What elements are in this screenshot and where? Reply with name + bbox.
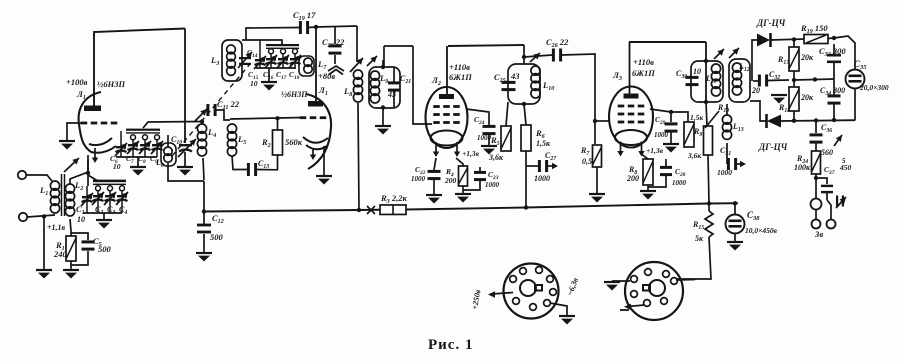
ground under C23 xyxy=(426,195,442,204)
terminal out1 xyxy=(812,220,821,229)
S1 pin 5 xyxy=(550,289,557,296)
S1 pin 2 xyxy=(520,268,527,275)
resistor R10 xyxy=(704,126,713,155)
capacitor C28 branch xyxy=(463,165,486,190)
label 10 xyxy=(113,162,121,171)
coil L10 xyxy=(531,66,540,98)
ground bank2 xyxy=(130,167,146,176)
svg-text:C3: C3 xyxy=(107,205,115,216)
junction tank bottom xyxy=(522,102,526,106)
svg-text:1000: 1000 xyxy=(411,175,426,183)
label C29 xyxy=(655,115,666,126)
label R4 xyxy=(445,167,454,178)
ground under R1 xyxy=(63,270,79,279)
svg-text:+110в: +110в xyxy=(449,62,470,72)
phone jack xyxy=(811,199,822,210)
junction bus R15 xyxy=(707,201,711,205)
label R15 xyxy=(692,220,704,231)
label C1 xyxy=(76,204,85,216)
coil L12 xyxy=(732,63,741,95)
svg-text:+80в: +80в xyxy=(318,71,335,81)
terminal out2 xyxy=(827,220,836,229)
wire R15 to socket xyxy=(676,237,711,279)
label R3 2,2к xyxy=(380,193,407,205)
bank3 ground stub xyxy=(268,68,270,81)
label 560 xyxy=(821,148,833,157)
label L7 xyxy=(317,59,327,71)
svg-text:3,6к: 3,6к xyxy=(488,153,504,162)
capacitor C37 branch xyxy=(816,178,833,200)
label Л2 xyxy=(431,75,441,87)
U1a grid dashes xyxy=(81,122,118,125)
svg-text:C25: C25 xyxy=(494,72,506,84)
wire IF bottom to R10 xyxy=(706,102,707,126)
ground under input xyxy=(36,270,52,279)
label 6Ж1П-2 xyxy=(632,68,655,78)
svg-text:43: 43 xyxy=(387,90,396,99)
svg-text:10: 10 xyxy=(693,67,701,76)
label R18 xyxy=(778,103,790,114)
svg-text:20,0×300: 20,0×300 xyxy=(859,83,889,92)
svg-text:100к: 100к xyxy=(794,163,811,172)
U1a cathode arc xyxy=(89,138,116,153)
coil L4 xyxy=(197,124,206,156)
svg-text:5: 5 xyxy=(842,157,846,165)
label L6 xyxy=(155,158,164,169)
svg-text:20: 20 xyxy=(751,86,760,95)
svg-text:R7: R7 xyxy=(580,146,590,157)
U1b plate xyxy=(308,101,323,107)
svg-text:R3 2,2к: R3 2,2к xyxy=(380,193,407,205)
wire L9 box ground xyxy=(382,108,384,125)
S2 pin 2 xyxy=(645,269,652,276)
ground under C24 xyxy=(481,146,497,155)
label 240 xyxy=(53,249,68,259)
label C8 xyxy=(138,154,146,165)
junction B+ node xyxy=(522,55,526,59)
coil L9 xyxy=(370,71,379,103)
svg-text:R15: R15 xyxy=(692,220,704,231)
transformer core L1-L2 xyxy=(62,174,65,216)
label C3 xyxy=(107,205,115,216)
resistor R3 xyxy=(380,205,406,215)
S2 pin 3 xyxy=(663,271,670,278)
label C33 300 xyxy=(819,46,846,58)
junction R17 bottom xyxy=(792,78,796,82)
label 0,5 xyxy=(582,157,592,166)
label 500 xyxy=(98,244,112,254)
svg-text:C2: C2 xyxy=(95,205,103,216)
label L8 xyxy=(343,86,352,98)
label 10 xyxy=(77,215,85,224)
wire to C26 xyxy=(524,55,552,57)
label ~6,3в xyxy=(565,276,580,297)
svg-text:L7: L7 xyxy=(317,59,327,71)
S2 wire right pin xyxy=(676,279,711,280)
label 43 xyxy=(510,71,520,81)
label half 6Н3П xyxy=(97,79,125,89)
junction C34 bus xyxy=(832,118,836,122)
capacitor C32 det xyxy=(750,75,789,87)
label C12 xyxy=(212,213,224,225)
label C19 17 xyxy=(293,10,316,22)
S2 arrow lower xyxy=(620,304,644,310)
label 5 xyxy=(842,157,846,165)
wire L3 top to bank3 xyxy=(242,40,282,44)
svg-text:C31: C31 xyxy=(720,146,731,157)
svg-text:R2: R2 xyxy=(261,137,271,149)
coil L3 xyxy=(227,45,236,75)
svg-text:L6: L6 xyxy=(155,158,164,169)
junction C29 xyxy=(669,110,673,114)
label C37 xyxy=(824,165,835,176)
wire osc top corner xyxy=(356,26,358,62)
resistor R15 zigzag xyxy=(705,204,713,238)
svg-text:L5: L5 xyxy=(237,134,246,146)
wire L4 bottom xyxy=(202,158,204,181)
label 1,5к xyxy=(536,139,551,148)
C14 arrow xyxy=(238,52,252,68)
wire T2 node down xyxy=(43,217,45,270)
capacitor C31 xyxy=(727,158,746,170)
bank1 bottom bus xyxy=(83,212,122,214)
svg-text:500: 500 xyxy=(210,232,224,242)
svg-text:~6,3в: ~6,3в xyxy=(565,276,580,297)
label C18 xyxy=(289,70,300,81)
label L5 xyxy=(237,134,246,146)
label C31 xyxy=(720,146,731,157)
svg-text:C19 17: C19 17 xyxy=(293,10,316,22)
wire grid feed La2 xyxy=(413,46,432,124)
grid bus half2 xyxy=(230,118,302,120)
variable arrow mixer xyxy=(530,53,540,62)
box above C21 xyxy=(384,46,413,67)
wire L8 bottom long vertical xyxy=(358,103,359,210)
wire plate node right xyxy=(316,26,357,27)
wire R4 bottom xyxy=(462,186,464,193)
ground det stub xyxy=(778,81,780,95)
junction D1 out xyxy=(792,37,796,41)
label C15 xyxy=(248,70,259,81)
label C20 22 xyxy=(322,37,345,49)
wire D1 to R19 xyxy=(771,39,804,40)
svg-text:C18: C18 xyxy=(289,70,300,81)
label 1000-C24 xyxy=(477,134,492,142)
label C16 xyxy=(263,70,274,81)
wire R2 bottom xyxy=(277,155,279,170)
ground under R4 xyxy=(455,194,471,203)
terminal input T2 xyxy=(19,213,27,221)
U1a cathode arrow xyxy=(92,148,98,163)
svg-text:C29: C29 xyxy=(655,115,666,126)
svg-text:200: 200 xyxy=(444,176,457,185)
ground under L9 box xyxy=(375,126,391,135)
label C36 xyxy=(821,123,832,134)
resistor R7 xyxy=(593,145,602,167)
svg-text:240: 240 xyxy=(53,249,68,259)
svg-text:ДГ-ЦЧ: ДГ-ЦЧ xyxy=(756,18,786,28)
trimmer capacitor C15 xyxy=(254,49,266,69)
junction IF bottom xyxy=(704,100,708,104)
coil L6 xyxy=(161,143,176,166)
S2 pin 4 xyxy=(671,278,678,285)
label +1,3в xyxy=(462,149,480,158)
wire T1 to L1 xyxy=(26,175,52,181)
label 450 xyxy=(839,163,852,172)
label R1 xyxy=(55,240,65,252)
coil L9 box xyxy=(369,67,400,108)
svg-text:6Ж1П: 6Ж1П xyxy=(632,68,655,78)
wire C26 to R7 corner xyxy=(562,54,595,144)
S2 pin 7 xyxy=(661,298,668,305)
capacitor C27 branch xyxy=(526,160,558,172)
coil L7 box xyxy=(299,56,314,76)
capacitor C28b branch xyxy=(648,157,672,187)
bank2 top bar xyxy=(126,129,160,134)
coil L12 box xyxy=(729,59,750,102)
label 5к xyxy=(695,234,704,243)
svg-text:C30: C30 xyxy=(676,69,687,80)
coil L11 xyxy=(711,64,720,96)
wire R10 bottom to bus xyxy=(708,155,709,204)
svg-text:560к: 560к xyxy=(285,137,303,147)
wire L13 bottom xyxy=(726,143,728,164)
label C2 xyxy=(95,205,103,216)
wire L2 bottom to R1 node xyxy=(70,219,71,231)
svg-text:1000: 1000 xyxy=(485,181,500,189)
svg-text:L2: L2 xyxy=(74,180,83,192)
label R10 xyxy=(717,103,729,114)
svg-text:½6Н3П: ½6Н3П xyxy=(97,79,125,89)
label L4 xyxy=(207,127,216,139)
svg-text:C26 22: C26 22 xyxy=(546,37,569,49)
label R7 xyxy=(580,146,590,157)
variable arrow L9 xyxy=(367,56,377,66)
wire B+ down xyxy=(523,45,525,57)
tank box C30 L11 xyxy=(691,61,723,102)
wire R24 to jack xyxy=(815,174,817,198)
resistor R6 xyxy=(521,104,531,151)
tank box C25 L10 xyxy=(508,64,540,104)
junction tank U3 xyxy=(704,59,708,63)
svg-text:L3: L3 xyxy=(210,55,219,67)
U1a plate xyxy=(84,106,101,112)
trimmer capacitor C6 xyxy=(115,136,127,157)
label R19 150 xyxy=(800,23,828,35)
capacitor C30 xyxy=(686,76,699,86)
S1 ground wire xyxy=(550,303,567,315)
svg-text:C23: C23 xyxy=(488,170,499,181)
wire C19 riser xyxy=(246,28,300,41)
coil L7 xyxy=(304,58,312,73)
resistor R1 xyxy=(66,236,76,261)
svg-text:20к: 20к xyxy=(800,93,814,102)
wire L12 top corner xyxy=(752,40,757,81)
junction cathode node xyxy=(86,171,90,175)
svg-text:1,5к: 1,5к xyxy=(536,139,551,148)
resistor R17 xyxy=(789,40,799,81)
variable capacitor C10 xyxy=(179,29,192,167)
coil L1 xyxy=(50,181,59,213)
coil L8 xyxy=(353,70,362,102)
triode U1b envelope xyxy=(306,94,331,169)
wire det mid xyxy=(794,79,834,80)
svg-text:L13: L13 xyxy=(732,122,744,133)
label +1,3в-2 xyxy=(646,146,664,155)
ground under R8 xyxy=(640,191,656,200)
trimmer capacitor C4 xyxy=(116,186,128,213)
U1b cathode lead xyxy=(323,146,325,175)
ground U1a grid xyxy=(59,141,75,150)
svg-text:L10: L10 xyxy=(542,80,554,92)
S2 pin 1 xyxy=(631,276,638,283)
U1b cathode arrow xyxy=(310,149,316,160)
label Л1-b xyxy=(318,85,328,97)
label 43 xyxy=(387,90,396,99)
B+ wire U3 xyxy=(629,41,706,43)
label +1,1в xyxy=(47,223,66,232)
bank3 bottom bus xyxy=(256,67,296,69)
label 200 xyxy=(444,176,457,185)
label C34 300 xyxy=(820,86,845,97)
label 20к-R17 xyxy=(800,53,814,62)
capacitor C23 branch xyxy=(428,158,441,194)
junction L9 bottom xyxy=(381,105,385,109)
svg-text:C20 22: C20 22 xyxy=(322,37,345,49)
svg-text:1,5к: 1,5к xyxy=(690,113,703,122)
wire C6 top xyxy=(120,131,122,136)
resistor R5 xyxy=(501,102,511,151)
S1 pin 8 xyxy=(513,298,520,305)
S1 +250v arrow xyxy=(488,291,513,297)
U1a cathode lead xyxy=(87,155,89,173)
wire C19 to plate node xyxy=(308,26,316,29)
label 1000-C28 xyxy=(485,181,500,189)
label 100к xyxy=(794,163,811,172)
ground S2 xyxy=(604,282,620,291)
coil L13 xyxy=(722,102,731,139)
wire L12 to detector xyxy=(750,101,766,121)
svg-text:10,0×450в: 10,0×450в xyxy=(745,226,778,235)
trimmer capacitor C3 xyxy=(104,186,116,213)
wire R8 bottom xyxy=(647,185,649,190)
svg-text:0,5: 0,5 xyxy=(582,157,592,166)
svg-text:1000: 1000 xyxy=(534,174,550,183)
junction mid left xyxy=(813,77,817,81)
bank1 ground stub xyxy=(103,213,105,219)
label 3,6к xyxy=(488,153,504,162)
svg-text:C38: C38 xyxy=(747,210,760,222)
junction plate node xyxy=(314,25,318,29)
svg-text:560: 560 xyxy=(821,148,833,157)
S2 ground wire left xyxy=(612,280,630,282)
U1a grid wire to ground xyxy=(67,123,84,140)
junction det bus C36 xyxy=(814,118,818,122)
ground under C29 xyxy=(663,144,679,153)
C10 arrow xyxy=(178,139,196,157)
wire out2 up xyxy=(827,200,831,220)
tube socket S2 xyxy=(625,262,683,320)
L6 wiring box xyxy=(168,135,204,181)
S2 pin 5 xyxy=(631,291,638,298)
label C26 22 xyxy=(546,37,569,49)
label C5 xyxy=(93,236,102,248)
svg-text:20к: 20к xyxy=(800,53,814,62)
junction T2 node xyxy=(42,214,46,218)
coil L5 xyxy=(227,124,236,156)
wire plate La1 up and across top xyxy=(94,29,185,107)
label C30 xyxy=(676,69,687,80)
wire plate stem L7 xyxy=(315,27,317,101)
terminal input T1 xyxy=(18,171,26,179)
ground under C10 xyxy=(177,167,193,176)
junction L9 top xyxy=(381,65,385,69)
wire R1 bottom to ground xyxy=(70,261,72,269)
trimmer capacitor C7 xyxy=(127,135,139,157)
U3 plate stem xyxy=(629,42,631,94)
trimmer capacitor C17 xyxy=(277,49,289,68)
capacitor C14 xyxy=(239,57,251,65)
capacitor C11 xyxy=(206,104,216,116)
wire U3 grid feed xyxy=(595,120,610,122)
capacitor C29 branch xyxy=(650,109,678,143)
label 6Ж1П xyxy=(449,72,472,82)
capacitor C26 xyxy=(552,49,562,62)
label C13 xyxy=(258,159,269,170)
S2 pin 6 xyxy=(644,300,651,307)
label C4 xyxy=(119,205,127,216)
label C32-20 xyxy=(769,70,780,81)
pentode U2 envelope xyxy=(426,87,468,157)
trimmer capacitor C8 xyxy=(139,135,151,157)
label L13 xyxy=(732,122,744,133)
bank1 top bar xyxy=(93,180,126,186)
label L1 xyxy=(39,185,48,197)
wire R19 right xyxy=(828,37,834,40)
svg-text:C12: C12 xyxy=(212,213,224,225)
label C23 xyxy=(415,165,426,176)
trimmer capacitor C18 xyxy=(289,49,301,68)
label 1000 xyxy=(534,174,550,183)
label 500 xyxy=(210,232,224,242)
variable arrow C11 xyxy=(195,109,207,121)
resistor R24 xyxy=(812,151,821,174)
junction bus R6 xyxy=(524,205,528,209)
ground S1 xyxy=(559,316,575,325)
svg-text:C4: C4 xyxy=(119,205,127,216)
resistor R9 branch xyxy=(671,111,719,147)
label 3,6к-R9 xyxy=(687,151,701,160)
svg-text:10: 10 xyxy=(250,79,258,88)
svg-text:1000: 1000 xyxy=(477,134,492,142)
caption Рис. 1 xyxy=(428,337,473,353)
svg-text:+1,3в: +1,3в xyxy=(462,149,480,158)
label C9 xyxy=(150,154,158,165)
svg-text:10: 10 xyxy=(77,215,85,224)
svg-text:C21: C21 xyxy=(400,74,411,85)
trimmer capacitor C1 xyxy=(81,186,93,213)
trimmer capacitor C9 xyxy=(151,135,163,157)
wire L9 box top stub xyxy=(382,60,384,67)
label 1000-C29 xyxy=(654,131,669,139)
label 10,0x450в xyxy=(745,226,778,235)
wire L5 bottom to C13 xyxy=(232,156,247,170)
label C6 xyxy=(110,154,118,165)
svg-text:C13: C13 xyxy=(258,159,269,170)
ground U1b cathode xyxy=(316,176,332,185)
label R9 xyxy=(693,127,702,138)
capacitor C21 xyxy=(388,67,400,108)
